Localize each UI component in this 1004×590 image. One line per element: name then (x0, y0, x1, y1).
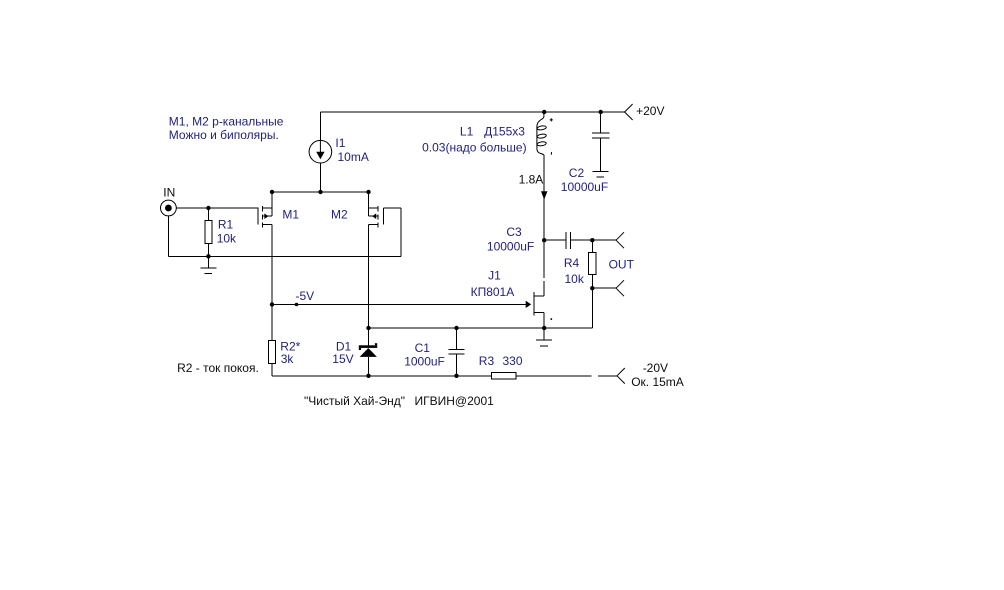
svg-text:Можно и биполяры.: Можно и биполяры. (169, 128, 279, 142)
transistor J1 (526, 292, 545, 316)
node junction -5V left (270, 302, 274, 306)
svg-text:IN: IN (163, 186, 175, 200)
transistor M2 (369, 206, 384, 228)
svg-text:-5V: -5V (296, 289, 315, 303)
wire IN down (167, 216, 169, 257)
resistor R3 (492, 373, 516, 380)
svg-text:10000uF: 10000uF (487, 240, 534, 254)
wire top +20V rail (321, 111, 626, 113)
wire C3 node to OUT top (592, 239, 616, 241)
svg-text:15V: 15V (332, 352, 353, 366)
svg-text:Д155х3: Д155х3 (484, 125, 525, 139)
ground under J1 (536, 328, 552, 346)
svg-text:C3: C3 (506, 225, 522, 239)
wire ground rail lower (168, 255, 401, 257)
node junction M2 source rail (366, 326, 370, 330)
svg-text:10k: 10k (217, 231, 237, 245)
svg-text:10k: 10k (565, 272, 585, 286)
node junction R4 bottom (590, 286, 594, 290)
current arrow 1.8A (541, 191, 547, 199)
wire L1 down to C3 node (543, 156, 545, 240)
ground under C2 (593, 172, 609, 178)
node junction M2 drain (366, 190, 370, 194)
svg-text:"Чистый Хай-Энд": "Чистый Хай-Энд" (304, 394, 405, 408)
resistor R2 (268, 305, 275, 376)
inductor L1 (537, 112, 547, 156)
svg-text:10000uF: 10000uF (561, 180, 608, 194)
terminal OUT bottom (616, 280, 624, 296)
wire J1 drain lead lower (543, 281, 545, 296)
svg-text:М2: М2 (331, 208, 348, 222)
wire M2 drain vertical (368, 192, 370, 216)
svg-text:C1: C1 (415, 341, 431, 355)
wire J1 source down (543, 313, 545, 329)
svg-text:R1: R1 (218, 218, 234, 232)
wire R4 bottom down (591, 288, 593, 328)
wire C3 node down to J1 drain upper (543, 240, 545, 278)
node junction C1 top (454, 326, 458, 330)
svg-text:+20V: +20V (636, 104, 664, 118)
wire -5V rail (272, 304, 526, 306)
svg-text:ИГВИН@2001: ИГВИН@2001 (415, 394, 495, 408)
terminal OUT top (616, 232, 624, 248)
wire R4 bottom to OUT bottom (592, 287, 616, 289)
svg-text:Ок. 15mA: Ок. 15mA (631, 375, 684, 389)
wire IN to M1 gate (176, 207, 259, 209)
node junction L1 top (542, 110, 546, 114)
node junction C2 top (599, 110, 603, 114)
svg-text:R2 - ток покоя.: R2 - ток покоя. (177, 361, 259, 375)
node junction R1 top (206, 206, 210, 210)
node -5V label anchor (295, 303, 299, 307)
wire bottom rail right b (598, 375, 617, 377)
connector IN (161, 200, 177, 216)
svg-text:I1: I1 (335, 136, 345, 150)
zener diode D1 (359, 328, 377, 376)
current source I1 (309, 140, 332, 163)
wire M1 source down (271, 225, 273, 305)
resistor R1 (205, 208, 212, 256)
transistor M1 (258, 206, 272, 228)
terminal -20V (617, 368, 625, 384)
svg-text:330: 330 (503, 354, 523, 368)
svg-text:М1: М1 (282, 208, 299, 222)
svg-text:0.03(надо больше): 0.03(надо больше) (422, 141, 526, 155)
wire I1 upper lead (320, 112, 322, 141)
svg-text:R4: R4 (564, 256, 580, 270)
resistor R4 (589, 240, 596, 288)
capacitor C1 (448, 328, 464, 376)
svg-text:КП801А: КП801А (471, 285, 515, 299)
svg-text:L1: L1 (460, 125, 474, 139)
svg-text:3k: 3k (281, 352, 295, 366)
node junction R4 top (590, 238, 594, 242)
wire bottom rail left (272, 375, 492, 377)
svg-text:1.8A: 1.8A (519, 173, 544, 187)
node junction C1 bottom (454, 374, 458, 378)
wire M1 drain vertical (271, 192, 273, 216)
svg-text:1000uF: 1000uF (404, 354, 445, 368)
svg-text:OUT: OUT (609, 257, 635, 271)
wire M2 source down (368, 225, 370, 328)
ground under R1 (201, 256, 217, 273)
node junction R1 bottom (206, 254, 210, 258)
wire M2 gate lead (384, 207, 402, 209)
svg-text:R3: R3 (479, 354, 495, 368)
wire M2 gate loop down (400, 208, 402, 256)
svg-text:М1, М2 р-канальные: М1, М2 р-канальные (169, 114, 284, 128)
node junction J1 source (542, 326, 546, 330)
wire source rail y328 (369, 327, 593, 329)
svg-text:J1: J1 (488, 268, 501, 282)
wire bottom rail right a (516, 375, 592, 377)
terminal +20V (625, 104, 633, 120)
svg-text:-20V: -20V (643, 361, 668, 375)
node junction C3 left (542, 238, 546, 242)
label L1 plus mark (550, 118, 553, 121)
wire I1 lower lead (320, 163, 322, 192)
svg-text:C2: C2 (569, 166, 585, 180)
wire drain rail M1-M2 (272, 191, 369, 193)
capacitor C2 (592, 112, 609, 172)
node junction M1 drain (270, 190, 274, 194)
capacitor C3 (544, 232, 592, 249)
label L1 minus mark (550, 152, 552, 155)
node junction D1 bottom (366, 374, 370, 378)
node junction I1 to rail (318, 190, 322, 194)
stray dot (551, 318, 553, 320)
svg-text:10mA: 10mA (338, 150, 369, 164)
